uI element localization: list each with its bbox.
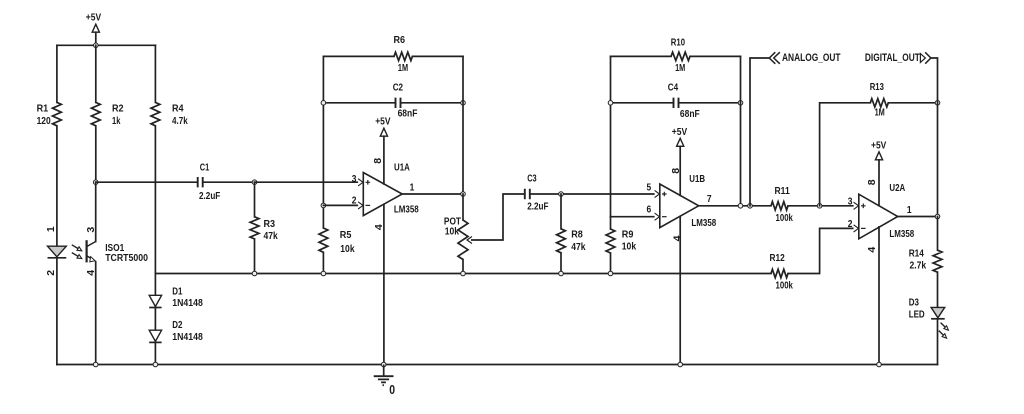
wire R5 bottom — [322, 252, 324, 273]
wire U1A pin 4 down — [383, 204, 385, 364]
wire R14 top — [937, 217, 939, 251]
wire U2A pin 4 down — [878, 227, 880, 365]
wire U1A box right — [462, 56, 464, 194]
node emitter/bottom-rail junction — [93, 362, 98, 367]
node ground junction — [381, 362, 386, 367]
node U1A output junction — [461, 192, 466, 197]
wire R13 right — [888, 102, 937, 104]
capacitor C2 — [393, 82, 418, 120]
phototransistor ISO1 — [87, 240, 96, 262]
label ISO1 TCRT5000 — [105, 242, 148, 264]
svg-text:2.7k: 2.7k — [910, 260, 927, 272]
resistor R14 — [909, 248, 942, 273]
wire R9 bottom — [610, 253, 612, 274]
op-amp U2A — [859, 194, 898, 239]
wire +5V to U1A pin 8 — [383, 136, 385, 184]
resistor R6 — [394, 34, 413, 74]
label LM358 U1A — [394, 204, 419, 216]
pin 1 label ISO1 — [45, 226, 57, 232]
plus sign U1A — [366, 180, 371, 185]
svg-text:7: 7 — [707, 193, 712, 205]
svg-text:LM358: LM358 — [394, 204, 419, 216]
wire U1A pin 2 — [323, 204, 358, 206]
resistor R4 — [151, 102, 188, 127]
svg-text:R14: R14 — [909, 248, 924, 260]
svg-text:U1A: U1A — [394, 161, 410, 173]
node U1B-pin4/bottom-rail junction — [678, 362, 683, 367]
wire R8 top — [560, 194, 562, 229]
resistor R3 — [250, 217, 278, 242]
wire R6 row — [323, 55, 463, 57]
svg-text:3: 3 — [848, 196, 853, 208]
node U1B output/analog junction — [748, 204, 753, 209]
node R5/mid-rail junction — [321, 271, 326, 276]
svg-text:8: 8 — [866, 179, 878, 185]
wire U1A output — [402, 193, 463, 195]
node U2A output junction — [935, 214, 940, 219]
pin 4 label ISO1 — [85, 270, 97, 276]
svg-text:4: 4 — [866, 247, 878, 253]
svg-text:D1: D1 — [172, 286, 182, 298]
wire R1 bottom to LED anode — [56, 126, 58, 246]
svg-text:R10: R10 — [671, 37, 685, 49]
svg-text:1M: 1M — [398, 62, 408, 74]
power +5V symbol U1A — [375, 115, 390, 136]
node R8/mid-rail junction — [559, 271, 564, 276]
svg-text:U1B: U1B — [689, 173, 705, 185]
wire emitter to bottom rail — [95, 262, 97, 365]
pin 2 clamp U2A — [854, 225, 859, 232]
pin 2 label U2A — [848, 218, 853, 230]
svg-text:C3: C3 — [527, 173, 537, 185]
wire analog out riser — [750, 58, 769, 206]
pin 5 clamp U1B — [655, 190, 660, 197]
svg-text:R4: R4 — [172, 103, 184, 115]
minus sign U2A — [861, 227, 866, 229]
svg-text:10k: 10k — [445, 225, 459, 237]
svg-text:1k: 1k — [112, 115, 121, 127]
svg-text:C2: C2 — [393, 82, 404, 94]
wire D1 to D2 — [154, 308, 156, 331]
svg-text:1: 1 — [45, 226, 57, 232]
pin 2 label ISO1 — [45, 270, 57, 276]
wire R3 top — [254, 182, 256, 217]
wire R12 to U2A pin 2 — [788, 228, 854, 273]
svg-text:1M: 1M — [875, 107, 885, 119]
svg-text:LM358: LM358 — [889, 228, 914, 240]
svg-text:R6: R6 — [394, 34, 406, 46]
resistor R1 — [37, 102, 62, 127]
node U1A pin2 junction — [321, 203, 326, 208]
potentiometer POT 10k — [444, 216, 472, 260]
svg-text:120: 120 — [37, 115, 51, 127]
svg-text:2: 2 — [352, 195, 357, 207]
resistor R13 — [870, 81, 889, 119]
wire R9 top stub — [610, 217, 612, 229]
wire LED cathode to bottom rail — [56, 258, 58, 364]
svg-text:R12: R12 — [770, 252, 785, 264]
node C2 left junction — [321, 101, 326, 106]
pin 1 label U2A — [907, 204, 912, 216]
svg-text:R13: R13 — [870, 81, 884, 93]
pin 3 clamp U1A — [358, 179, 363, 186]
pin 3 label U2A — [848, 196, 853, 208]
svg-text:+5V: +5V — [871, 139, 886, 151]
wire U1B box right — [740, 56, 742, 205]
svg-text:1: 1 — [410, 182, 415, 194]
svg-text:47k: 47k — [571, 241, 585, 253]
svg-text:R2: R2 — [112, 103, 124, 115]
wire R2 top — [95, 45, 97, 102]
wire mid rail left segment — [155, 273, 771, 275]
pin 5 label U1B — [647, 182, 652, 194]
resistor R2 — [91, 102, 123, 127]
svg-text:2.2uF: 2.2uF — [527, 200, 549, 212]
wire collector node to C1 — [96, 181, 198, 183]
svg-text:0: 0 — [389, 383, 395, 397]
svg-text:R9: R9 — [622, 228, 634, 240]
svg-text:R8: R8 — [571, 229, 583, 241]
wire U1B pin 6 — [611, 216, 656, 218]
wire C2 row — [323, 102, 463, 104]
resistor R8 — [557, 229, 586, 253]
wire to U1A pin 3 — [255, 181, 359, 183]
wire U2A output — [898, 216, 938, 218]
wire D3 to bottom rail — [937, 319, 939, 364]
svg-text:R3: R3 — [264, 218, 276, 230]
node C4 left junction — [608, 101, 613, 106]
svg-text:4: 4 — [671, 235, 683, 241]
node C4 right junction — [738, 101, 743, 106]
wire top rail — [57, 44, 155, 46]
svg-text:10k: 10k — [622, 240, 636, 252]
diode D2 — [149, 319, 203, 343]
pin 3 label ISO1 — [85, 227, 97, 233]
resistor R10 — [671, 37, 690, 75]
label LM358 U2A — [889, 228, 914, 240]
svg-text:R5: R5 — [340, 229, 352, 241]
wire D2 to bottom rail — [154, 342, 156, 364]
wire +5V stem to top rail — [95, 32, 97, 45]
node U2A-pin4/bottom-rail junction — [877, 362, 882, 367]
node C1/R3 junction — [252, 180, 257, 185]
svg-text:D2: D2 — [172, 319, 182, 331]
wire R2 bottom to collector node — [95, 126, 97, 182]
wire C3 to U1B pin 5 — [530, 193, 655, 195]
svg-text:C1: C1 — [200, 162, 210, 174]
pin 8 label U2A — [866, 179, 878, 185]
wire U1B output — [699, 205, 771, 207]
LED of ISO1 (emitter diode) — [48, 246, 67, 258]
node POT/mid-rail junction — [461, 271, 466, 276]
label U1B — [689, 173, 705, 185]
pin 6 label U1B — [647, 204, 652, 216]
resistor R5 — [319, 228, 355, 255]
wire R14 to D3 — [937, 272, 939, 307]
wire R4 top — [154, 45, 156, 102]
svg-text:3: 3 — [352, 173, 357, 185]
minus sign U1A — [366, 204, 371, 206]
svg-text:47k: 47k — [264, 230, 278, 242]
svg-text:+5V: +5V — [672, 126, 687, 138]
pin 3 label U1A — [352, 173, 357, 185]
svg-text:+5V: +5V — [375, 115, 390, 127]
wire C1 to R3 node — [203, 181, 254, 183]
wire R8 bottom — [560, 253, 562, 274]
wire bottom rail — [57, 364, 938, 366]
node R9/mid-rail junction — [608, 271, 613, 276]
wire U1B pin 4 down — [679, 216, 681, 364]
wire R13 left leg — [820, 103, 871, 206]
pin 4 label U1A — [373, 224, 385, 230]
svg-text:R11: R11 — [775, 185, 790, 197]
svg-text:LM358: LM358 — [691, 217, 716, 229]
node collector junction — [93, 180, 98, 185]
svg-text:2: 2 — [848, 218, 853, 230]
pin 6 clamp U1B — [655, 213, 660, 220]
svg-text:100k: 100k — [776, 212, 794, 224]
wire R1 top — [56, 45, 58, 102]
svg-text:LED: LED — [909, 308, 925, 320]
wire +5V to U1B pin 8 — [679, 146, 681, 195]
pin 8 label U1B — [670, 168, 682, 174]
pin 4 label U1B — [671, 235, 683, 241]
wire output to POT — [462, 194, 464, 220]
svg-text:5: 5 — [647, 182, 652, 194]
node D2/bottom-rail junction — [153, 362, 158, 367]
wire R3 bottom — [254, 239, 256, 274]
connector DIGITAL_OUT — [865, 52, 931, 64]
svg-text:1N4148: 1N4148 — [172, 297, 203, 309]
svg-text:U2A: U2A — [889, 182, 905, 194]
svg-text:10k: 10k — [340, 243, 354, 255]
pin 4 label U2A — [866, 247, 878, 253]
minus sign U1B — [662, 216, 667, 218]
pin 1 label U1A — [410, 182, 415, 194]
op-amp U1B — [660, 184, 699, 228]
wire U1A box left upper — [322, 56, 324, 228]
capacitor C4 — [668, 82, 700, 120]
wire to diode D1 — [154, 274, 156, 296]
LED D3 — [909, 296, 945, 320]
svg-text:TCRT5000: TCRT5000 — [105, 252, 148, 264]
pin 8 label U1A — [372, 158, 384, 164]
light arrows into phototransistor — [72, 245, 82, 259]
svg-text:1M: 1M — [675, 62, 685, 74]
node R13/pin3 junction — [817, 204, 822, 209]
pin 2 clamp U1A — [358, 202, 363, 209]
pin 3 clamp U2A — [854, 202, 859, 209]
svg-text:6: 6 — [647, 204, 652, 216]
power +5V symbol U1B — [672, 126, 687, 147]
resistor R12 — [770, 252, 794, 291]
wire POT wiper to C3 — [472, 194, 525, 240]
wire digital out to R13 leg — [931, 58, 938, 216]
svg-text:100k: 100k — [776, 279, 794, 291]
wire +5V to U2A pin 8 — [878, 160, 880, 206]
node U1B output/feedback junction — [738, 204, 743, 209]
svg-text:2: 2 — [45, 270, 57, 276]
node C3/R8 junction — [559, 192, 564, 197]
pin 7 label U1B — [707, 193, 712, 205]
label U2A — [889, 182, 905, 194]
op-amp U1A — [363, 173, 402, 216]
svg-text:68nF: 68nF — [398, 108, 418, 120]
node C2 right junction — [461, 101, 466, 106]
plus sign U2A — [861, 204, 866, 209]
wire R10 row — [611, 55, 741, 57]
wire U1B box left — [610, 56, 612, 216]
diode D1 — [149, 286, 203, 309]
wire collector — [95, 182, 97, 241]
node junction top rail — [94, 43, 99, 48]
svg-text:+5V: +5V — [86, 12, 101, 24]
light arrows from LED D3 — [939, 323, 949, 339]
svg-text:8: 8 — [372, 158, 384, 164]
wire POT bottom — [462, 260, 464, 274]
node R13/digital junction — [935, 101, 940, 106]
pin 2 label U1A — [352, 195, 357, 207]
node R3/mid-rail junction — [252, 271, 257, 276]
wire R4 bottom to mid rail — [154, 126, 156, 274]
svg-text:4.7k: 4.7k — [172, 115, 188, 127]
svg-text:DIGITAL_OUT: DIGITAL_OUT — [865, 52, 920, 64]
resistor R9 — [606, 228, 636, 253]
plus sign U1B — [662, 192, 667, 197]
power +5V symbol U2A — [871, 139, 886, 160]
capacitor C1 — [198, 162, 221, 203]
power +5V symbol (main) — [86, 12, 101, 33]
svg-text:1: 1 — [907, 204, 912, 216]
svg-text:ANALOG_OUT: ANALOG_OUT — [782, 52, 841, 64]
connector ANALOG_OUT — [769, 52, 840, 64]
wire C4 row — [611, 102, 741, 104]
ground symbol 0 — [374, 365, 395, 397]
svg-text:D3: D3 — [909, 296, 919, 308]
svg-text:R1: R1 — [37, 103, 49, 115]
capacitor C3 — [525, 173, 549, 213]
svg-text:2.2uF: 2.2uF — [199, 190, 221, 202]
label U1A — [394, 161, 410, 173]
svg-text:C4: C4 — [668, 82, 679, 94]
wire R11 to U2A pin 3 — [788, 205, 854, 207]
resistor R11 — [771, 185, 793, 224]
svg-text:68nF: 68nF — [680, 108, 700, 120]
label LM358 U1B — [691, 217, 716, 229]
svg-text:1N4148: 1N4148 — [172, 331, 203, 343]
